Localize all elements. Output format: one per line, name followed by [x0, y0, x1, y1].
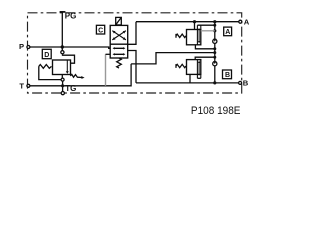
piston sleeve right edge — [200, 74, 202, 78]
node pilot orifice circle — [61, 51, 64, 54]
label box C — [96, 25, 104, 34]
wire drain to riser — [195, 57, 215, 59]
wire pilot to valve side — [63, 54, 75, 63]
svg-text:P108 198E: P108 198E — [191, 105, 241, 117]
check valve upper — [213, 39, 217, 44]
crossed flow arrows — [112, 31, 126, 40]
flow arrow (up) — [198, 62, 200, 75]
node P/PG junction — [61, 45, 64, 48]
node riser / B line junction — [213, 81, 216, 84]
check valve lower — [213, 61, 217, 66]
svg-text:T: T — [19, 82, 24, 91]
label box A — [224, 27, 232, 36]
relief valve A (cartridge) — [176, 22, 215, 49]
label box B — [223, 70, 232, 79]
svg-text:TG: TG — [65, 84, 76, 93]
svg-text:B: B — [225, 72, 230, 79]
node T rail junction — [61, 84, 64, 87]
wire B work line — [136, 82, 240, 84]
parallel flow arrows — [114, 48, 125, 54]
svg-text:D: D — [44, 52, 49, 59]
node riser junction 1 — [213, 24, 216, 27]
piston sleeve left edge — [196, 60, 198, 79]
svg-text:B: B — [243, 78, 249, 87]
port B — [239, 81, 242, 84]
valve body envelope — [53, 60, 71, 75]
return spring — [117, 58, 122, 68]
piston sleeve right edge — [200, 25, 202, 29]
wire valve A lead — [128, 22, 136, 45]
node A line / riser junction — [213, 20, 216, 23]
wire link to check riser — [131, 53, 215, 64]
node riser junction 2 — [213, 29, 216, 32]
node riser junction 3 — [213, 47, 216, 50]
solenoid directional valve C — [110, 17, 128, 68]
svg-text:C: C — [98, 27, 103, 34]
wire sleeve cap to riser — [197, 24, 214, 26]
flow arrow (down) — [198, 29, 200, 42]
svg-text:PG: PG — [65, 11, 77, 20]
wire check riser — [214, 22, 216, 83]
pilot relief valve D — [39, 47, 85, 95]
port P — [27, 46, 30, 49]
svg-text:A: A — [244, 17, 250, 26]
wire valve B lead riser — [128, 51, 136, 83]
wire P rail — [28, 47, 110, 48]
wire valve tank lead (gray riser) — [105, 54, 107, 86]
wire outlet to TG — [61, 75, 63, 92]
valve body envelope — [187, 30, 201, 45]
label box D — [42, 49, 51, 58]
svg-text:P: P — [19, 42, 24, 51]
wire feed from A line — [194, 22, 196, 30]
valve body (two positions) — [110, 25, 128, 58]
manifold enclosure boundary (dash-dot) — [28, 13, 242, 93]
node vent circle — [61, 78, 64, 81]
solenoid coil — [116, 17, 122, 25]
piston sleeve left edge — [196, 25, 198, 45]
wire pilot feed from P — [61, 47, 63, 51]
spring — [176, 34, 186, 38]
node riser junction 5 — [213, 56, 216, 59]
wire PG gauge line — [61, 12, 63, 47]
node riser junction 4 — [213, 51, 216, 54]
flow arrow (down) — [66, 60, 68, 72]
wire T rail — [28, 64, 131, 86]
relief valve B (cartridge) — [176, 57, 215, 83]
port PG boundary tick — [60, 11, 66, 13]
adjustment arrow — [70, 74, 82, 77]
valve body envelope — [187, 60, 201, 75]
port A — [239, 20, 242, 23]
wire drain to riser — [195, 45, 214, 49]
spring — [176, 64, 186, 68]
sleeve bottom cap — [197, 77, 200, 79]
port T — [27, 84, 30, 87]
wire A work line — [136, 21, 240, 23]
spring — [39, 65, 52, 69]
svg-text:A: A — [225, 29, 230, 36]
pilot line (gray) — [201, 30, 215, 32]
port TG — [61, 92, 64, 95]
wire feed from B line — [189, 74, 191, 83]
wire spring drain to tank — [39, 66, 61, 79]
wire valve tank lead stub — [106, 53, 111, 55]
node A line / relief feed junction — [193, 20, 196, 23]
